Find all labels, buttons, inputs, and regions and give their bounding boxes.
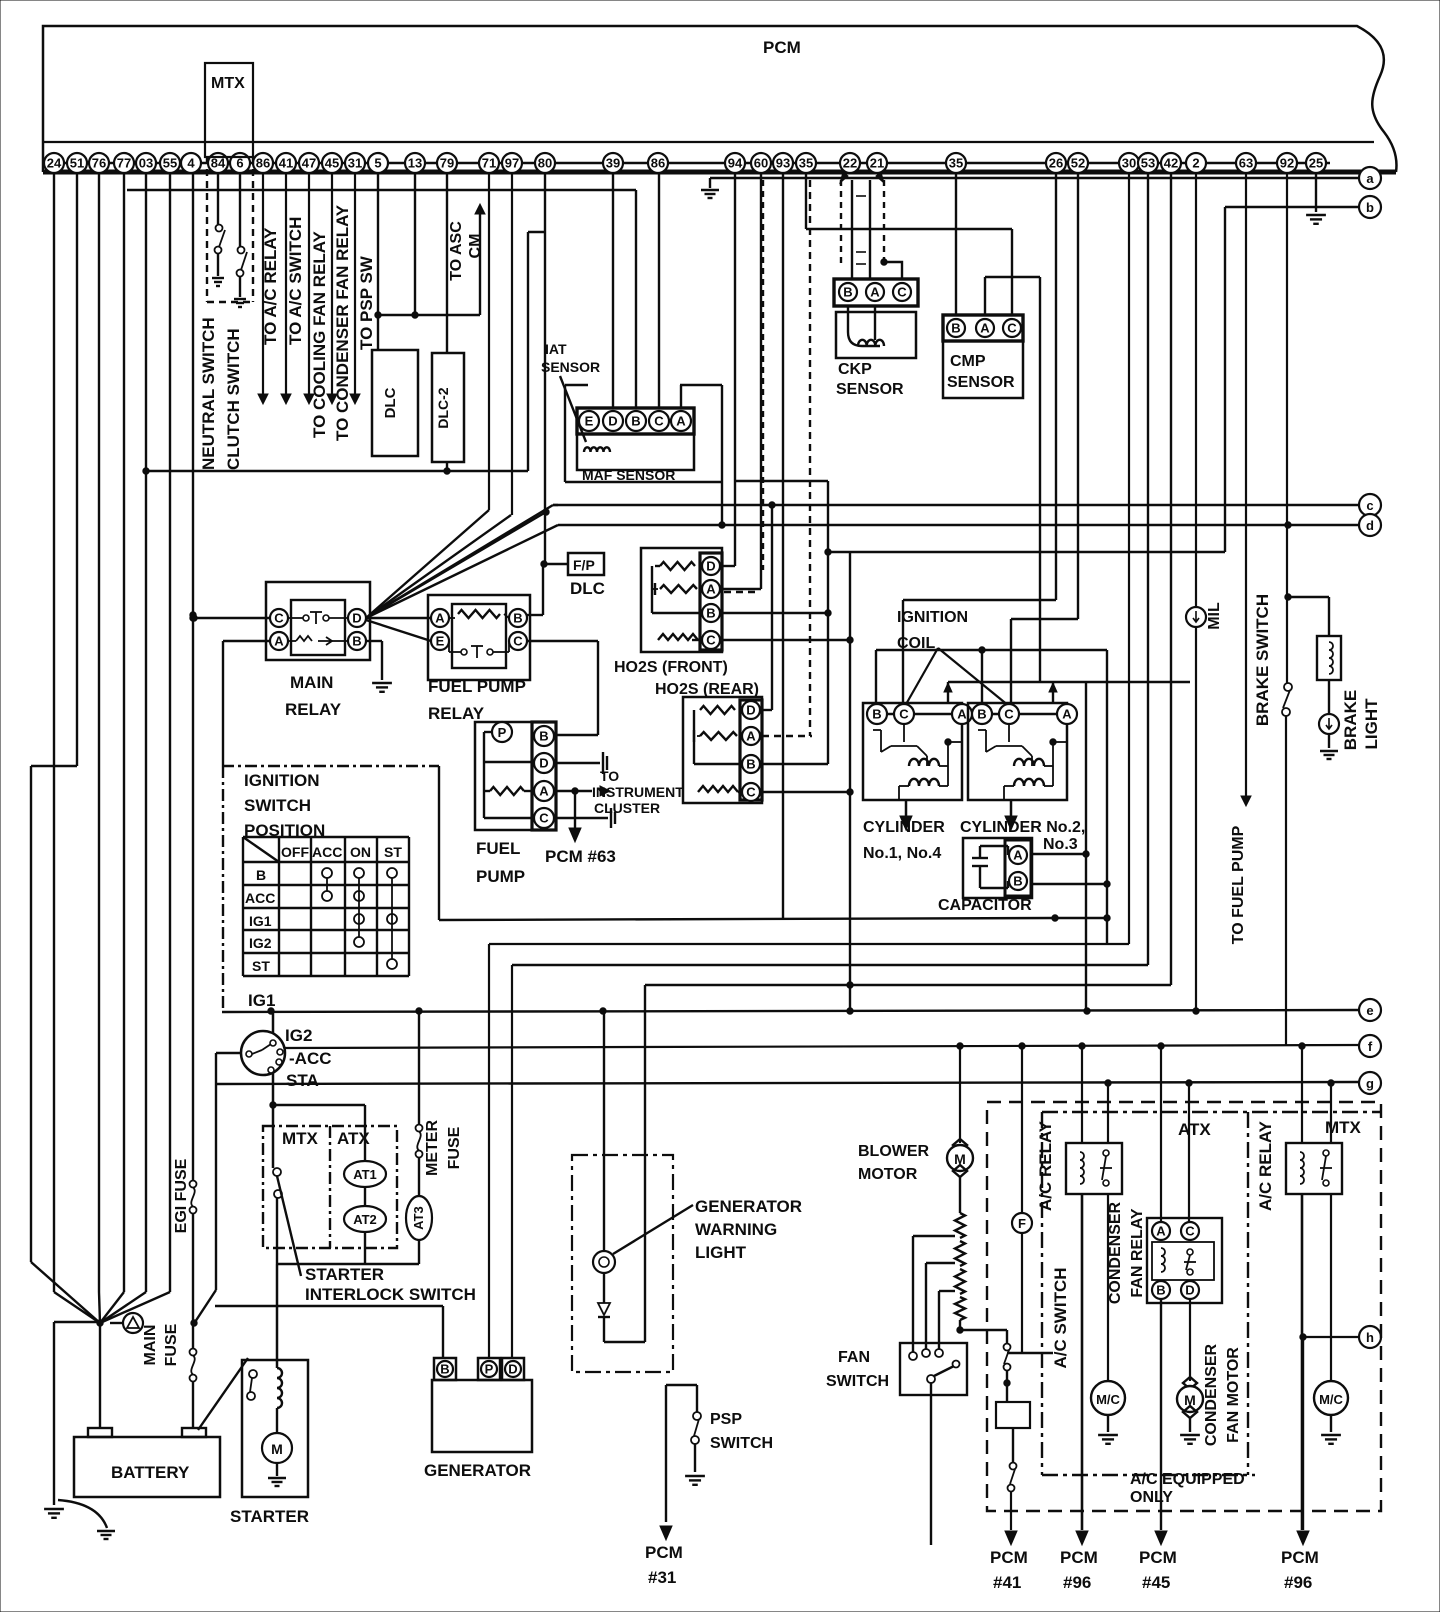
svg-text:BRAKE SWITCH: BRAKE SWITCH — [1253, 594, 1272, 726]
svg-text:WARNING: WARNING — [695, 1220, 777, 1239]
svg-text:MAF SENSOR: MAF SENSOR — [582, 467, 675, 483]
svg-text:RELAY: RELAY — [428, 704, 485, 723]
svg-text:COIL: COIL — [897, 635, 935, 652]
svg-text:51: 51 — [70, 155, 84, 170]
svg-text:FUSE: FUSE — [163, 1323, 180, 1366]
svg-text:52: 52 — [1071, 155, 1085, 170]
svg-text:PCM: PCM — [1139, 1548, 1177, 1567]
svg-text:ATX: ATX — [337, 1129, 370, 1148]
svg-text:B: B — [746, 756, 755, 771]
svg-text:FAN: FAN — [838, 1349, 870, 1366]
svg-text:CYLINDER No.2,: CYLINDER No.2, — [960, 819, 1085, 836]
svg-text:B: B — [513, 610, 522, 625]
svg-text:P: P — [485, 1361, 494, 1376]
svg-text:C: C — [746, 784, 756, 799]
svg-text:STA: STA — [286, 1071, 319, 1090]
svg-text:SENSOR: SENSOR — [947, 374, 1015, 391]
svg-text:97: 97 — [505, 155, 519, 170]
svg-text:A/C EQUIPPED: A/C EQUIPPED — [1130, 1471, 1245, 1488]
svg-text:P: P — [498, 725, 507, 740]
svg-text:#96: #96 — [1284, 1573, 1312, 1592]
svg-text:5: 5 — [374, 155, 381, 170]
svg-text:g: g — [1366, 1076, 1374, 1091]
svg-text:86: 86 — [651, 155, 665, 170]
svg-text:B: B — [440, 1361, 449, 1376]
svg-text:41: 41 — [279, 155, 293, 170]
svg-text:CLUTCH SWITCH: CLUTCH SWITCH — [224, 328, 243, 470]
svg-text:LIGHT: LIGHT — [1362, 698, 1381, 750]
svg-text:NEUTRAL SWITCH: NEUTRAL SWITCH — [199, 317, 218, 470]
svg-text:A: A — [539, 783, 549, 798]
svg-text:B: B — [539, 728, 548, 743]
svg-text:b: b — [1366, 200, 1374, 215]
svg-text:D: D — [1185, 1282, 1194, 1297]
svg-text:B: B — [706, 605, 715, 620]
svg-text:21: 21 — [870, 155, 884, 170]
svg-text:TO ASC: TO ASC — [448, 221, 465, 281]
svg-text:INTERLOCK SWITCH: INTERLOCK SWITCH — [305, 1285, 476, 1304]
svg-text:79: 79 — [440, 155, 454, 170]
svg-text:h: h — [1366, 1330, 1374, 1345]
svg-text:A: A — [706, 581, 716, 596]
svg-text:A: A — [1013, 847, 1023, 862]
svg-text:A: A — [957, 706, 967, 721]
svg-text:39: 39 — [606, 155, 620, 170]
svg-text:M: M — [271, 1441, 283, 1457]
svg-text:DLC: DLC — [382, 387, 399, 418]
svg-text:M/C: M/C — [1096, 1392, 1120, 1407]
svg-text:BLOWER: BLOWER — [858, 1143, 930, 1160]
svg-text:80: 80 — [538, 155, 552, 170]
svg-text:MOTOR: MOTOR — [858, 1166, 918, 1183]
svg-text:D: D — [539, 755, 548, 770]
svg-text:#31: #31 — [648, 1568, 676, 1587]
svg-text:GENERATOR: GENERATOR — [424, 1461, 531, 1480]
svg-text:MTX: MTX — [282, 1129, 319, 1148]
svg-text:SENSOR: SENSOR — [541, 359, 600, 375]
svg-text:IAT: IAT — [545, 341, 567, 357]
svg-text:HO2S (FRONT): HO2S (FRONT) — [614, 659, 728, 676]
svg-text:#96: #96 — [1063, 1573, 1091, 1592]
svg-text:DLC-2: DLC-2 — [435, 387, 451, 428]
svg-text:#45: #45 — [1142, 1573, 1170, 1592]
svg-text:PCM: PCM — [763, 38, 801, 57]
svg-text:ATX: ATX — [1178, 1120, 1211, 1139]
svg-text:METER: METER — [424, 1120, 441, 1176]
svg-text:A: A — [980, 320, 990, 335]
svg-text:A/C SWITCH: A/C SWITCH — [1051, 1267, 1070, 1368]
svg-text:D: D — [706, 558, 715, 573]
svg-text:IG2: IG2 — [249, 935, 272, 951]
svg-text:No.3: No.3 — [1043, 836, 1078, 853]
svg-text:B: B — [843, 284, 852, 299]
svg-text:ACC: ACC — [312, 844, 342, 860]
svg-text:AT3: AT3 — [411, 1206, 426, 1230]
svg-text:ON: ON — [350, 844, 371, 860]
svg-text:CMP: CMP — [950, 353, 986, 370]
svg-text:A: A — [1062, 706, 1072, 721]
svg-text:AT1: AT1 — [353, 1167, 377, 1182]
svg-text:a: a — [1366, 171, 1374, 186]
svg-text:C: C — [654, 413, 664, 428]
svg-text:#41: #41 — [993, 1573, 1021, 1592]
svg-text:B: B — [977, 706, 986, 721]
svg-text:ST: ST — [384, 844, 402, 860]
svg-text:42: 42 — [1164, 155, 1178, 170]
svg-text:SWITCH: SWITCH — [244, 796, 311, 815]
svg-text:BRAKE: BRAKE — [1341, 690, 1360, 750]
svg-text:IGNITION: IGNITION — [897, 609, 968, 626]
svg-text:92: 92 — [1280, 155, 1294, 170]
svg-text:RELAY: RELAY — [285, 700, 342, 719]
svg-text:53: 53 — [1141, 155, 1155, 170]
svg-text:B: B — [951, 320, 960, 335]
svg-text:f: f — [1368, 1039, 1373, 1054]
svg-text:60: 60 — [754, 155, 768, 170]
svg-text:ST: ST — [252, 958, 270, 974]
svg-text:47: 47 — [302, 155, 316, 170]
svg-text:C: C — [897, 284, 907, 299]
svg-text:D: D — [746, 702, 755, 717]
svg-text:C: C — [1007, 320, 1017, 335]
svg-text:A/C RELAY: A/C RELAY — [1036, 1120, 1055, 1211]
svg-text:TO COOLING FAN RELAY: TO COOLING FAN RELAY — [310, 230, 329, 438]
svg-text:25: 25 — [1309, 155, 1323, 170]
svg-text:2: 2 — [1192, 155, 1199, 170]
svg-text:D: D — [352, 610, 361, 625]
svg-text:94: 94 — [728, 155, 743, 170]
svg-text:C: C — [1004, 706, 1014, 721]
svg-text:MTX: MTX — [211, 75, 245, 92]
svg-text:22: 22 — [843, 155, 857, 170]
svg-text:F: F — [1018, 1216, 1026, 1231]
svg-text:SWITCH: SWITCH — [710, 1435, 773, 1452]
svg-text:d: d — [1366, 518, 1374, 533]
svg-text:PCM: PCM — [1060, 1548, 1098, 1567]
svg-text:OFF: OFF — [281, 844, 309, 860]
svg-text:EGI FUSE: EGI FUSE — [173, 1158, 190, 1233]
svg-text:A: A — [676, 413, 686, 428]
svg-text:HO2S (REAR): HO2S (REAR) — [655, 681, 759, 698]
svg-text:C: C — [274, 610, 284, 625]
svg-text:No.1, No.4: No.1, No.4 — [863, 845, 941, 862]
svg-text:55: 55 — [163, 155, 177, 170]
svg-text:PUMP: PUMP — [476, 867, 525, 886]
svg-text:03: 03 — [139, 155, 153, 170]
svg-text:CM: CM — [467, 234, 484, 259]
svg-text:FUSE: FUSE — [446, 1126, 463, 1169]
svg-text:ONLY: ONLY — [1130, 1489, 1173, 1506]
svg-text:45: 45 — [325, 155, 339, 170]
svg-text:E: E — [585, 413, 594, 428]
svg-text:CAPACITOR: CAPACITOR — [938, 897, 1032, 914]
svg-text:A: A — [1156, 1223, 1166, 1238]
svg-text:A: A — [274, 633, 284, 648]
svg-text:STARTER: STARTER — [230, 1507, 309, 1526]
svg-text:PSP: PSP — [710, 1411, 742, 1428]
svg-text:FUEL PUMP: FUEL PUMP — [428, 677, 526, 696]
svg-text:M/C: M/C — [1319, 1392, 1343, 1407]
svg-text:CLUSTER: CLUSTER — [594, 800, 660, 816]
svg-text:C: C — [899, 706, 909, 721]
svg-text:IGNITION: IGNITION — [244, 771, 320, 790]
svg-text:INSTRUMENT: INSTRUMENT — [592, 784, 684, 800]
svg-text:E: E — [436, 633, 445, 648]
svg-text:TO A/C SWITCH: TO A/C SWITCH — [286, 217, 305, 345]
svg-text:TO: TO — [600, 768, 619, 784]
svg-text:IG2: IG2 — [285, 1026, 312, 1045]
svg-text:C: C — [539, 810, 549, 825]
svg-text:TO CONDENSER FAN RELAY: TO CONDENSER FAN RELAY — [333, 204, 352, 441]
svg-text:BATTERY: BATTERY — [111, 1463, 190, 1482]
svg-text:24: 24 — [47, 155, 62, 170]
svg-text:C: C — [1185, 1223, 1195, 1238]
svg-text:B: B — [631, 413, 640, 428]
svg-text:71: 71 — [482, 155, 496, 170]
svg-text:B: B — [352, 633, 361, 648]
svg-text:13: 13 — [408, 155, 422, 170]
svg-text:D: D — [508, 1361, 517, 1376]
svg-text:AT2: AT2 — [353, 1212, 377, 1227]
svg-text:63: 63 — [1239, 155, 1253, 170]
svg-text:B: B — [1013, 873, 1022, 888]
svg-text:93: 93 — [776, 155, 790, 170]
svg-text:IG1: IG1 — [249, 913, 272, 929]
svg-text:77: 77 — [117, 155, 131, 170]
svg-text:B: B — [1156, 1282, 1165, 1297]
svg-text:TO A/C RELAY: TO A/C RELAY — [261, 227, 280, 345]
svg-text:CONDENSER: CONDENSER — [1107, 1201, 1124, 1304]
svg-text:STARTER: STARTER — [305, 1265, 384, 1284]
svg-text:MAIN: MAIN — [290, 673, 333, 692]
svg-text:SENSOR: SENSOR — [836, 381, 904, 398]
svg-text:GENERATOR: GENERATOR — [695, 1197, 802, 1216]
svg-text:A/C RELAY: A/C RELAY — [1256, 1120, 1275, 1211]
svg-text:-ACC: -ACC — [289, 1049, 332, 1068]
svg-text:MIL: MIL — [1206, 602, 1223, 630]
svg-text:IG1: IG1 — [248, 991, 275, 1010]
svg-text:CONDENSER: CONDENSER — [1203, 1343, 1220, 1446]
svg-text:30: 30 — [1122, 155, 1136, 170]
svg-text:FAN RELAY: FAN RELAY — [1129, 1208, 1146, 1298]
svg-text:CYLINDER: CYLINDER — [863, 819, 945, 836]
svg-text:D: D — [608, 413, 617, 428]
svg-text:26: 26 — [1049, 155, 1063, 170]
svg-text:B: B — [872, 706, 881, 721]
svg-text:PCM #63: PCM #63 — [545, 847, 616, 866]
svg-text:A: A — [870, 284, 880, 299]
svg-text:35: 35 — [799, 155, 813, 170]
svg-text:31: 31 — [348, 155, 362, 170]
svg-text:LIGHT: LIGHT — [695, 1243, 747, 1262]
svg-text:4: 4 — [187, 155, 195, 170]
svg-text:A: A — [746, 728, 756, 743]
svg-text:MAIN: MAIN — [142, 1325, 159, 1366]
svg-text:C: C — [513, 633, 523, 648]
svg-text:35: 35 — [949, 155, 963, 170]
svg-text:A: A — [435, 610, 445, 625]
svg-text:F/P: F/P — [573, 557, 595, 573]
svg-text:TO PSP SW: TO PSP SW — [357, 255, 376, 350]
svg-text:B: B — [256, 867, 266, 883]
svg-text:SWITCH: SWITCH — [826, 1373, 889, 1390]
svg-text:PCM: PCM — [645, 1543, 683, 1562]
svg-text:ACC: ACC — [245, 890, 275, 906]
svg-text:FAN MOTOR: FAN MOTOR — [1225, 1347, 1242, 1443]
svg-text:PCM: PCM — [1281, 1548, 1319, 1567]
svg-text:C: C — [706, 632, 716, 647]
svg-text:76: 76 — [92, 155, 106, 170]
svg-text:e: e — [1366, 1003, 1373, 1018]
svg-text:c: c — [1366, 498, 1373, 513]
svg-text:86: 86 — [256, 155, 270, 170]
svg-text:DLC: DLC — [570, 579, 605, 598]
svg-text:PCM: PCM — [990, 1548, 1028, 1567]
svg-text:CKP: CKP — [838, 361, 872, 378]
svg-text:FUEL: FUEL — [476, 839, 520, 858]
svg-text:TO FUEL PUMP: TO FUEL PUMP — [1230, 825, 1247, 944]
